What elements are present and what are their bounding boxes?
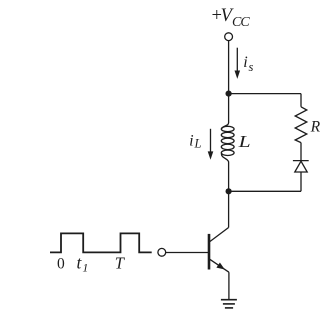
svg-text:t1: t1 [77, 252, 89, 274]
svg-text:0: 0 [57, 256, 65, 273]
svg-text:is: is [243, 54, 253, 74]
svg-text:T: T [115, 254, 126, 273]
svg-text:R: R [310, 119, 321, 136]
svg-text:+VCC: +VCC [210, 6, 250, 30]
svg-text:L: L [237, 132, 250, 151]
svg-text:iL: iL [189, 132, 201, 150]
